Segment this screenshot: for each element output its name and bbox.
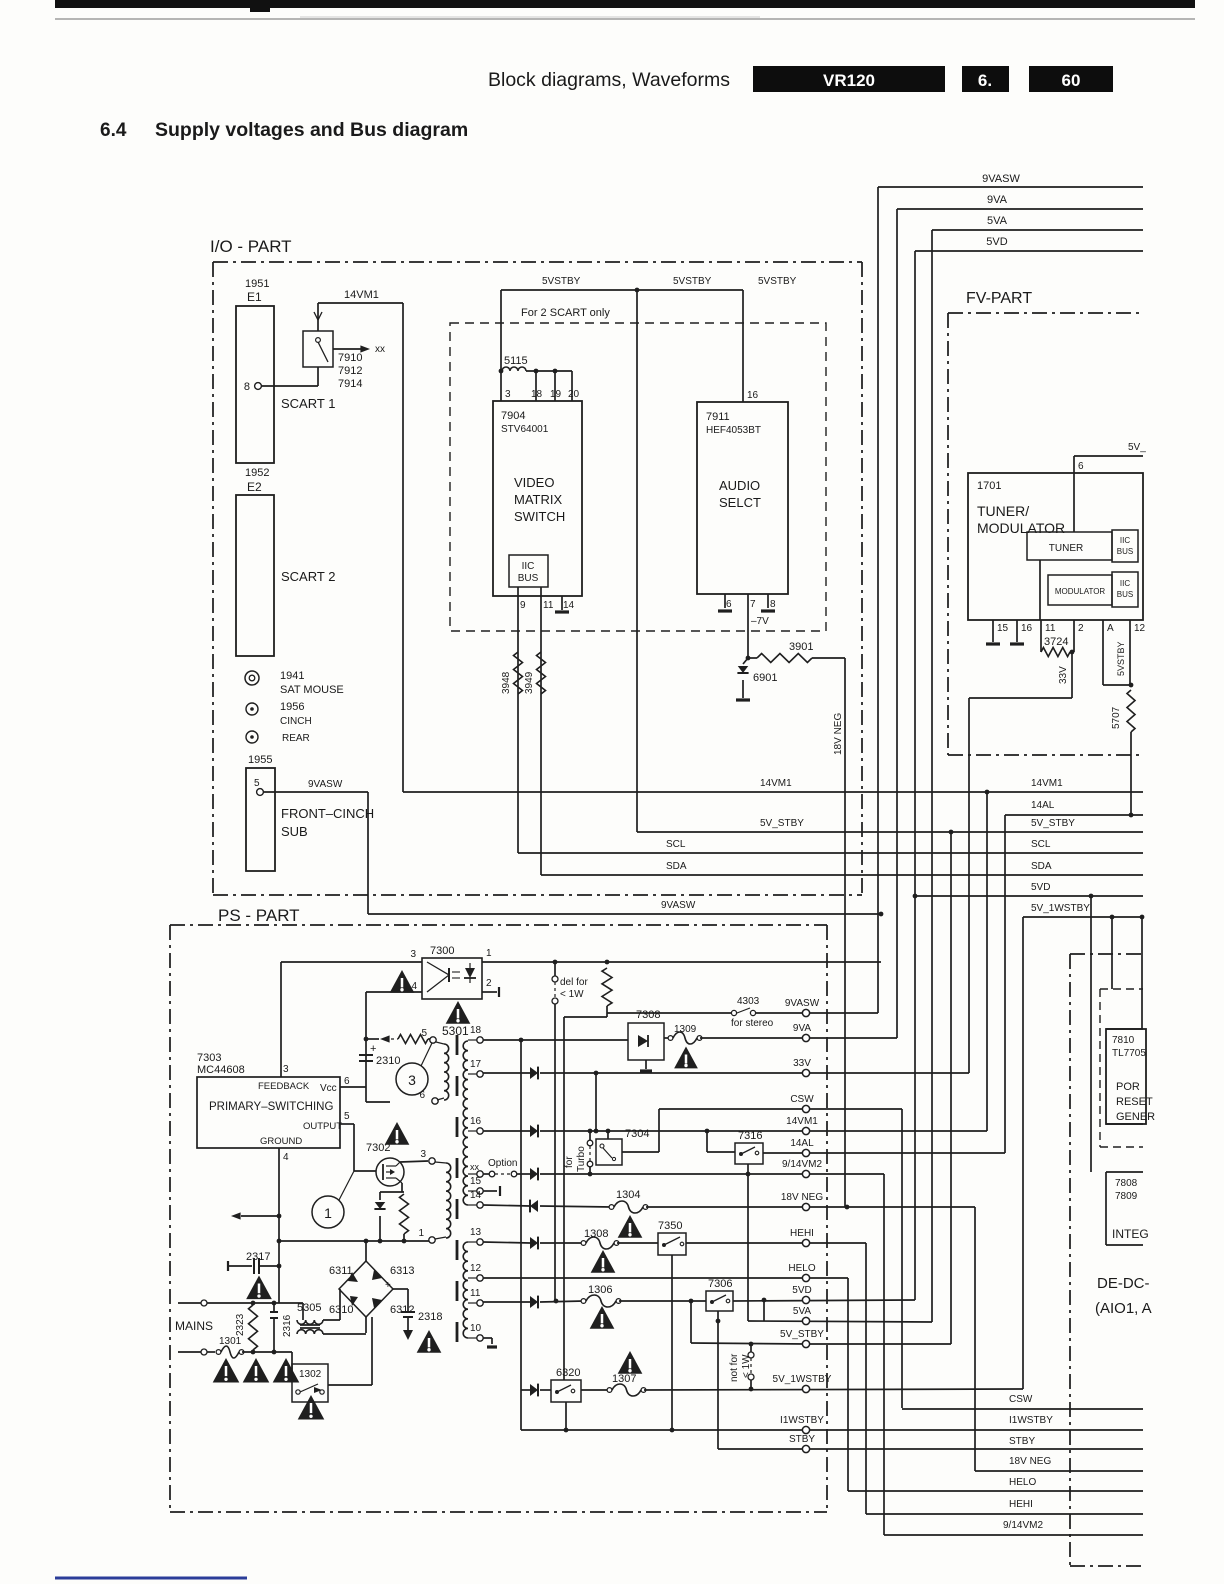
- svg-text:BUS: BUS: [1117, 547, 1133, 556]
- svg-text:INTEG: INTEG: [1112, 1227, 1149, 1241]
- svg-text:1306: 1306: [588, 1284, 612, 1296]
- svg-text:Vcc: Vcc: [320, 1083, 337, 1094]
- svg-text:9VA: 9VA: [793, 1023, 811, 1034]
- svg-text:5V_1WSTBY: 5V_1WSTBY: [773, 1374, 832, 1385]
- svg-text:5305: 5305: [297, 1302, 321, 1314]
- svg-text:14VM1: 14VM1: [344, 289, 379, 301]
- svg-text:E1: E1: [247, 290, 262, 304]
- svg-text:PRIMARY–SWITCHING: PRIMARY–SWITCHING: [209, 1101, 333, 1113]
- svg-text:BUS: BUS: [1117, 590, 1133, 599]
- svg-text:18V NEG: 18V NEG: [781, 1192, 823, 1203]
- svg-text:5: 5: [421, 1028, 427, 1039]
- svg-text:3: 3: [408, 1072, 416, 1088]
- svg-text:For 2 SCART only: For 2 SCART only: [521, 307, 610, 319]
- svg-text:5VD: 5VD: [1031, 882, 1050, 893]
- svg-text:9VASW: 9VASW: [982, 173, 1020, 185]
- svg-text:4303: 4303: [737, 996, 760, 1007]
- svg-text:–7V: –7V: [751, 616, 769, 627]
- svg-text:11: 11: [1045, 623, 1056, 634]
- svg-text:6313: 6313: [390, 1265, 414, 1277]
- svg-text:xx: xx: [375, 344, 385, 355]
- svg-text:14AL: 14AL: [1031, 800, 1055, 811]
- svg-text:7912: 7912: [338, 365, 362, 377]
- svg-text:for: for: [564, 1156, 575, 1168]
- svg-text:9/14VM2: 9/14VM2: [782, 1159, 822, 1170]
- svg-text:STBY: STBY: [1009, 1436, 1035, 1447]
- svg-text:MC44608: MC44608: [197, 1064, 245, 1076]
- svg-text:6320: 6320: [556, 1367, 580, 1379]
- svg-text:7304: 7304: [625, 1128, 649, 1140]
- svg-text:3: 3: [283, 1064, 289, 1075]
- svg-text:8: 8: [244, 381, 250, 393]
- svg-text:del for: del for: [560, 977, 588, 988]
- svg-text:2318: 2318: [418, 1311, 442, 1323]
- svg-text:7316: 7316: [738, 1130, 762, 1142]
- svg-text:11: 11: [543, 600, 554, 611]
- svg-text:7911: 7911: [706, 411, 730, 423]
- svg-text:1304: 1304: [616, 1189, 640, 1201]
- svg-text:PS - PART: PS - PART: [218, 906, 300, 925]
- svg-text:+: +: [385, 1280, 391, 1291]
- svg-text:HELO: HELO: [788, 1263, 815, 1274]
- svg-text:18V NEG: 18V NEG: [833, 713, 844, 755]
- svg-text:5V_: 5V_: [1128, 442, 1146, 453]
- svg-text:SDA: SDA: [666, 861, 687, 872]
- svg-text:60: 60: [1062, 71, 1081, 90]
- svg-text:HELO: HELO: [1009, 1477, 1036, 1488]
- svg-text:8: 8: [770, 599, 776, 610]
- svg-text:1302: 1302: [299, 1369, 322, 1380]
- svg-text:5VA: 5VA: [793, 1306, 811, 1317]
- svg-text:MATRIX: MATRIX: [514, 492, 562, 507]
- svg-text:POR: POR: [1116, 1081, 1140, 1093]
- svg-text:GROUND: GROUND: [260, 1136, 302, 1147]
- svg-text:6.4: 6.4: [100, 120, 127, 141]
- svg-text:7308: 7308: [636, 1009, 660, 1021]
- svg-text:6901: 6901: [753, 672, 777, 684]
- svg-text:FRONT–CINCH: FRONT–CINCH: [281, 806, 374, 821]
- svg-text:5V_STBY: 5V_STBY: [760, 818, 804, 829]
- svg-text:I1WSTBY: I1WSTBY: [780, 1415, 824, 1426]
- svg-text:9/14VM2: 9/14VM2: [1003, 1520, 1043, 1531]
- svg-text:3948: 3948: [501, 671, 512, 694]
- svg-text:(AIO1, A: (AIO1, A: [1095, 1300, 1152, 1317]
- svg-text:2: 2: [486, 978, 492, 989]
- svg-text:20: 20: [568, 389, 580, 400]
- svg-text:14: 14: [563, 600, 575, 611]
- svg-text:STBY: STBY: [789, 1434, 815, 1445]
- svg-text:SCART 2: SCART 2: [281, 569, 335, 584]
- svg-text:MODULATOR: MODULATOR: [977, 520, 1065, 536]
- svg-text:HEHI: HEHI: [1009, 1499, 1033, 1510]
- svg-text:1: 1: [486, 948, 492, 959]
- svg-text:5VD: 5VD: [792, 1285, 811, 1296]
- svg-text:6: 6: [344, 1076, 350, 1087]
- svg-text:5VSTBY: 5VSTBY: [758, 276, 797, 287]
- svg-text:9VASW: 9VASW: [308, 779, 343, 790]
- svg-text:5: 5: [254, 778, 260, 789]
- svg-text:15: 15: [470, 1176, 482, 1187]
- svg-text:7810: 7810: [1112, 1035, 1135, 1046]
- svg-text:MODULATOR: MODULATOR: [1055, 587, 1106, 596]
- svg-text:Block diagrams, Waveforms: Block diagrams, Waveforms: [488, 69, 730, 91]
- svg-text:7350: 7350: [658, 1220, 682, 1232]
- svg-text:SCL: SCL: [666, 839, 686, 850]
- svg-text:5707: 5707: [1111, 706, 1122, 729]
- svg-text:3: 3: [505, 389, 511, 400]
- svg-text:7306: 7306: [708, 1278, 732, 1290]
- svg-text:5VSTBY: 5VSTBY: [542, 276, 581, 287]
- svg-text:5: 5: [344, 1111, 350, 1122]
- svg-text:13: 13: [470, 1227, 482, 1238]
- svg-text:15: 15: [997, 623, 1009, 634]
- svg-text:SDA: SDA: [1031, 861, 1052, 872]
- svg-text:5VSTBY: 5VSTBY: [673, 276, 712, 287]
- svg-text:IIC: IIC: [1120, 536, 1130, 545]
- svg-text:< 1W: < 1W: [560, 989, 584, 1000]
- svg-text:5VSTBY: 5VSTBY: [1116, 641, 1126, 676]
- svg-text:6.: 6.: [978, 71, 992, 90]
- svg-text:2323: 2323: [235, 1313, 246, 1336]
- svg-text:12: 12: [1134, 623, 1146, 634]
- svg-text:1956: 1956: [280, 701, 304, 713]
- svg-text:VIDEO: VIDEO: [514, 475, 554, 490]
- svg-text:VR120: VR120: [823, 71, 875, 90]
- svg-text:SCL: SCL: [1031, 839, 1051, 850]
- svg-text:GENER: GENER: [1116, 1111, 1155, 1123]
- svg-text:7904: 7904: [501, 410, 525, 422]
- svg-text:FV-PART: FV-PART: [966, 290, 1032, 307]
- svg-text:3: 3: [420, 1149, 426, 1160]
- svg-text:5V_1WSTBY: 5V_1WSTBY: [1031, 903, 1090, 914]
- svg-text:not for: not for: [729, 1353, 740, 1382]
- svg-text:7302: 7302: [366, 1142, 390, 1154]
- svg-text:CSW: CSW: [1009, 1394, 1033, 1405]
- svg-text:14: 14: [470, 1190, 482, 1201]
- svg-text:STV64001: STV64001: [501, 424, 549, 435]
- svg-text:1941: 1941: [280, 670, 304, 682]
- svg-text:4: 4: [283, 1152, 289, 1163]
- svg-text:19: 19: [550, 389, 562, 400]
- svg-text:2316: 2316: [282, 1314, 293, 1337]
- svg-text:7809: 7809: [1115, 1191, 1138, 1202]
- svg-text:SUB: SUB: [281, 824, 308, 839]
- svg-text:SWITCH: SWITCH: [514, 509, 565, 524]
- svg-text:for stereo: for stereo: [731, 1018, 774, 1029]
- svg-text:18: 18: [531, 389, 543, 400]
- svg-text:5VD: 5VD: [986, 236, 1007, 248]
- svg-text:FEEDBACK: FEEDBACK: [258, 1081, 310, 1092]
- svg-text:xx: xx: [470, 1162, 480, 1172]
- svg-text:A: A: [1107, 623, 1114, 634]
- svg-text:3: 3: [410, 949, 416, 960]
- svg-text:33V: 33V: [1058, 666, 1069, 684]
- svg-text:TL7705: TL7705: [1112, 1048, 1146, 1059]
- svg-text:14VM1: 14VM1: [786, 1116, 818, 1127]
- svg-text:16: 16: [1021, 623, 1033, 634]
- svg-text:MAINS: MAINS: [175, 1319, 213, 1333]
- svg-text:+: +: [370, 1043, 376, 1055]
- svg-text:9VA: 9VA: [987, 194, 1008, 206]
- svg-text:14VM1: 14VM1: [1031, 778, 1063, 789]
- svg-text:14VM1: 14VM1: [760, 778, 792, 789]
- svg-text:9VASW: 9VASW: [785, 998, 820, 1009]
- svg-text:5VA: 5VA: [987, 215, 1008, 227]
- svg-text:SCART 1: SCART 1: [281, 396, 335, 411]
- svg-text:TUNER/: TUNER/: [977, 503, 1029, 519]
- svg-text:I1WSTBY: I1WSTBY: [1009, 1415, 1053, 1426]
- svg-text:HEHI: HEHI: [790, 1228, 814, 1239]
- svg-text:6311: 6311: [329, 1265, 353, 1277]
- svg-text:1301: 1301: [219, 1336, 242, 1347]
- svg-text:AUDIO: AUDIO: [719, 478, 760, 493]
- svg-text:SELCT: SELCT: [719, 495, 761, 510]
- svg-text:RESET: RESET: [1116, 1096, 1153, 1108]
- svg-text:1: 1: [418, 1228, 424, 1239]
- svg-text:18: 18: [470, 1025, 482, 1036]
- svg-text:11: 11: [470, 1288, 481, 1299]
- svg-text:33V: 33V: [793, 1058, 811, 1069]
- svg-text:OUTPUT: OUTPUT: [303, 1121, 342, 1132]
- svg-text:TUNER: TUNER: [1049, 543, 1083, 554]
- svg-text:3901: 3901: [789, 641, 813, 653]
- svg-text:3949: 3949: [524, 671, 535, 694]
- svg-text:5V_STBY: 5V_STBY: [780, 1329, 824, 1340]
- svg-text:9VASW: 9VASW: [661, 900, 696, 911]
- svg-text:2: 2: [1078, 623, 1084, 634]
- svg-text:< 1W: < 1W: [741, 1354, 752, 1378]
- svg-text:5V_STBY: 5V_STBY: [1031, 818, 1075, 829]
- svg-text:CSW: CSW: [790, 1094, 814, 1105]
- svg-text:CINCH: CINCH: [280, 716, 312, 727]
- svg-text:REAR: REAR: [282, 733, 310, 744]
- svg-text:IIC: IIC: [1120, 579, 1130, 588]
- svg-text:E2: E2: [247, 480, 262, 494]
- svg-text:1955: 1955: [248, 754, 272, 766]
- svg-text:14AL: 14AL: [790, 1138, 814, 1149]
- svg-text:18V NEG: 18V NEG: [1009, 1456, 1051, 1467]
- svg-text:I/O - PART: I/O - PART: [210, 237, 292, 256]
- svg-text:6: 6: [726, 599, 732, 610]
- svg-text:7910: 7910: [338, 352, 362, 364]
- svg-text:HEF4053BT: HEF4053BT: [706, 425, 761, 436]
- svg-text:7300: 7300: [430, 945, 454, 957]
- svg-text:1: 1: [324, 1205, 332, 1221]
- svg-text:IIC: IIC: [522, 561, 535, 572]
- svg-text:SAT MOUSE: SAT MOUSE: [280, 684, 344, 696]
- svg-text:10: 10: [470, 1323, 482, 1334]
- svg-text:17: 17: [470, 1059, 482, 1070]
- svg-text:5301: 5301: [442, 1024, 469, 1038]
- svg-text:7: 7: [750, 599, 756, 610]
- svg-text:1952: 1952: [245, 467, 269, 479]
- svg-text:1701: 1701: [977, 480, 1001, 492]
- svg-text:6: 6: [1078, 461, 1084, 472]
- svg-text:2310: 2310: [376, 1055, 400, 1067]
- svg-text:3724: 3724: [1044, 636, 1068, 648]
- svg-text:1307: 1307: [612, 1373, 636, 1385]
- svg-text:Turbo: Turbo: [576, 1146, 587, 1172]
- svg-text:6310: 6310: [329, 1304, 353, 1316]
- svg-text:16: 16: [747, 390, 759, 401]
- svg-text:6312: 6312: [390, 1304, 414, 1316]
- svg-text:7303: 7303: [197, 1052, 221, 1064]
- svg-text:7808: 7808: [1115, 1178, 1138, 1189]
- svg-text:7914: 7914: [338, 378, 362, 390]
- svg-text:Supply voltages and Bus diagra: Supply voltages and Bus diagram: [155, 119, 468, 141]
- svg-text:12: 12: [470, 1263, 482, 1274]
- svg-text:9: 9: [520, 600, 526, 611]
- svg-text:16: 16: [470, 1116, 482, 1127]
- svg-text:1951: 1951: [245, 278, 269, 290]
- svg-text:BUS: BUS: [518, 573, 539, 584]
- svg-text:5115: 5115: [504, 355, 528, 367]
- svg-text:Option: Option: [488, 1158, 517, 1169]
- svg-text:DE-DC-: DE-DC-: [1097, 1275, 1150, 1292]
